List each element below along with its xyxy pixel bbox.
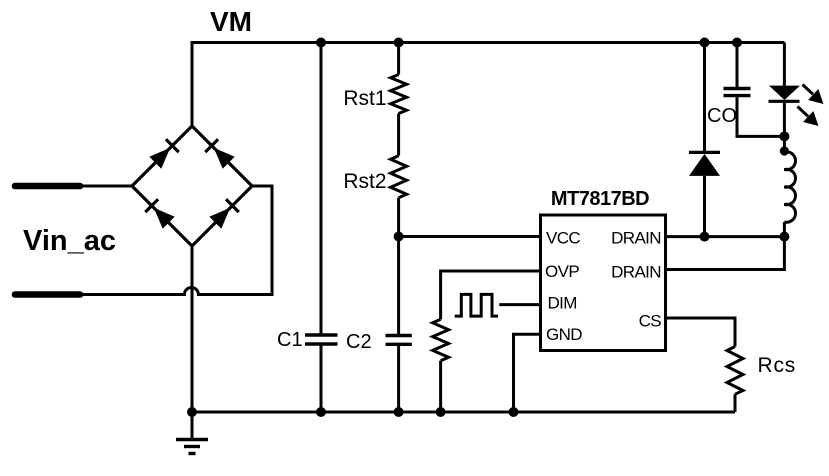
- svg-text:DRAIN: DRAIN: [611, 229, 661, 248]
- svg-text:DRAIN: DRAIN: [611, 263, 661, 282]
- svg-text:CO: CO: [707, 105, 737, 127]
- svg-text:Vin_ac: Vin_ac: [23, 225, 116, 257]
- svg-text:Rst2: Rst2: [343, 170, 386, 193]
- svg-text:VCC: VCC: [546, 229, 580, 248]
- svg-text:GND: GND: [546, 325, 582, 344]
- svg-text:C1: C1: [277, 329, 303, 351]
- svg-text:DIM: DIM: [548, 294, 577, 313]
- svg-text:C2: C2: [346, 331, 372, 353]
- svg-text:CS: CS: [639, 312, 662, 331]
- svg-text:Rcs: Rcs: [758, 354, 797, 377]
- svg-text:Rst1: Rst1: [343, 87, 386, 110]
- svg-text:OVP: OVP: [545, 262, 579, 281]
- svg-text:VM: VM: [210, 6, 252, 37]
- svg-text:MT7817BD: MT7817BD: [551, 188, 649, 210]
